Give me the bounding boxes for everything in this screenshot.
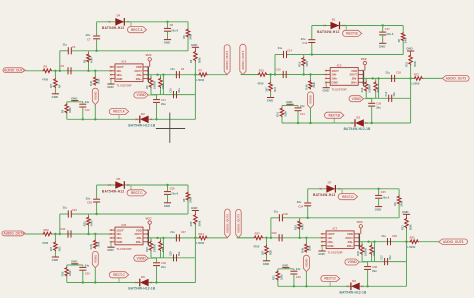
svg-text:31u: 31u [278,46,283,50]
svg-text:GND: GND [406,47,412,51]
svg-text:RECT.B: RECT.B [346,32,358,36]
svg-text:500k: 500k [414,61,417,67]
svg-text:GND: GND [191,206,197,210]
svg-text:240k: 240k [189,197,192,203]
svg-text:100k: 100k [280,274,283,280]
svg-text:GND: GND [331,81,337,85]
svg-text:500k: 500k [410,224,413,230]
svg-text:GND: GND [327,244,333,248]
svg-text:C38: C38 [372,265,377,269]
svg-text:BAT54W-H12-1B: BAT54W-H12-1B [344,127,371,131]
svg-text:D3: D3 [356,116,360,120]
svg-text:C30: C30 [85,271,90,275]
svg-text:100k: 100k [98,78,101,84]
svg-text:RECT.D: RECT.D [342,195,354,199]
svg-text:31u: 31u [63,42,68,46]
svg-text:GND: GND [263,262,269,266]
svg-text:30u: 30u [389,255,392,260]
svg-text:L5000: L5000 [407,245,415,249]
svg-text:21u: 21u [170,230,175,234]
svg-text:21u: 21u [381,234,386,238]
svg-text:VGND: VGND [352,97,362,101]
svg-text:30u: 30u [178,88,181,93]
svg-text:R19: R19 [277,112,280,117]
svg-text:GND: GND [379,44,385,48]
svg-text:IC7: IC7 [333,227,338,231]
svg-text:IC4: IC4 [122,60,127,64]
svg-text:AUDIO_OUT5: AUDIO_OUT5 [226,214,230,234]
svg-text:C36: C36 [392,234,397,238]
svg-text:C7: C7 [87,37,91,41]
svg-text:AUDIO_OUT6: AUDIO_OUT6 [443,240,464,244]
svg-text:C23: C23 [72,208,77,212]
svg-text:VGND: VGND [93,91,97,101]
svg-text:TLV2372IP: TLV2372IP [328,251,343,255]
svg-text:20u-6: 20u-6 [382,195,389,199]
svg-text:31u: 31u [63,206,68,210]
svg-text:R16: R16 [361,87,364,92]
svg-text:C8: C8 [170,23,174,27]
svg-text:R28: R28 [269,250,273,255]
svg-text:C37: C37 [381,255,384,260]
svg-text:267: 267 [260,250,264,255]
svg-text:R13: R13 [259,68,265,72]
svg-text:C6: C6 [61,64,65,68]
svg-text:AUDIO_OUT5: AUDIO_OUT5 [237,214,241,234]
svg-text:C19: C19 [385,91,388,96]
svg-text:C15: C15 [276,68,281,72]
svg-text:C14: C14 [287,49,292,53]
svg-text:4000: 4000 [373,250,376,256]
svg-text:2IN+: 2IN+ [347,244,353,248]
svg-text:BAT54W-H12-1B: BAT54W-H12-1B [128,287,155,291]
svg-text:100k: 100k [313,82,316,88]
svg-text:C26: C26 [170,186,175,190]
svg-text:4700: 4700 [257,81,264,85]
svg-text:C9: C9 [181,67,185,71]
svg-text:GND: GND [164,204,170,208]
svg-text:C10: C10 [170,88,173,93]
svg-text:100000: 100000 [153,80,156,89]
svg-text:20u-6: 20u-6 [387,32,394,36]
svg-text:R15: R15 [298,61,302,66]
svg-text:VGND: VGND [136,93,146,97]
svg-text:R21: R21 [58,246,62,251]
svg-text:IC6: IC6 [122,223,127,227]
svg-text:GND: GND [52,95,58,99]
svg-text:VCC: VCC [357,220,364,224]
svg-text:GND: GND [107,248,113,252]
svg-text:L5000: L5000 [196,241,204,245]
svg-text:C33: C33 [272,231,277,235]
svg-text:VGND: VGND [309,94,313,104]
svg-text:D6: D6 [141,275,145,279]
svg-text:21u: 21u [386,71,391,75]
svg-text:240k: 240k [401,200,404,206]
svg-text:BAT54W-H12-1B: BAT54W-H12-1B [128,123,155,127]
svg-text:R17: R17 [414,72,420,76]
svg-text:2IN+: 2IN+ [136,77,142,81]
svg-text:100000: 100000 [369,84,372,93]
svg-text:TLV2372IP: TLV2372IP [332,87,347,91]
svg-text:267: 267 [49,83,53,88]
svg-text:GND: GND [107,85,113,89]
svg-text:VCC: VCC [146,53,153,57]
svg-text:30u: 30u [393,92,396,97]
svg-text:4700: 4700 [253,245,260,249]
svg-text:C25: C25 [87,201,92,205]
svg-text:GND: GND [286,100,292,104]
svg-text:22u: 22u [86,33,91,37]
svg-text:100k: 100k [98,241,101,247]
svg-text:4000: 4000 [162,83,165,89]
svg-text:GND: GND [164,41,170,45]
svg-text:TLV2372IP: TLV2372IP [117,84,132,88]
svg-text:4700: 4700 [42,78,49,82]
svg-text:31u: 31u [274,209,279,213]
svg-text:BAT54W-H12: BAT54W-H12 [317,30,340,34]
svg-text:GND: GND [116,240,122,244]
svg-text:240k: 240k [405,37,408,43]
svg-text:R31: R31 [410,236,416,240]
svg-text:GND: GND [52,258,58,262]
svg-text:GND: GND [282,263,288,267]
svg-text:R22: R22 [82,221,86,226]
svg-text:4000: 4000 [162,246,165,252]
svg-text:29u: 29u [161,102,166,106]
svg-text:GND: GND [375,208,381,212]
svg-text:2IN+: 2IN+ [136,240,142,244]
svg-text:GND: GND [318,252,324,256]
svg-text:D5: D5 [117,177,121,181]
svg-text:RECT.A: RECT.A [113,110,125,114]
svg-text:C27: C27 [181,230,186,234]
svg-text:100k: 100k [309,245,312,251]
svg-text:D2: D2 [141,112,145,116]
svg-text:500k: 500k [199,57,202,63]
svg-text:R18: R18 [405,62,408,67]
svg-text:C16: C16 [302,41,307,45]
svg-text:C18: C18 [396,71,401,75]
svg-text:24u: 24u [300,104,305,108]
svg-text:240k: 240k [189,33,192,39]
svg-text:C20: C20 [376,102,381,106]
svg-text:24u: 24u [296,267,301,271]
svg-text:BAT54W-H12: BAT54W-H12 [102,189,125,193]
svg-text:R27: R27 [255,232,261,236]
svg-text:R5: R5 [82,59,86,63]
svg-text:C17: C17 [385,27,390,31]
svg-text:R33: R33 [273,275,276,280]
svg-text:VGND: VGND [305,258,309,268]
svg-text:GND: GND [402,210,408,214]
svg-text:C32: C32 [283,212,288,216]
svg-text:R20: R20 [44,228,50,232]
svg-text:R-IN: R-IN [305,84,308,89]
svg-text:22u: 22u [86,196,91,200]
svg-text:L5000: L5000 [196,78,204,82]
svg-text:L5000: L5000 [412,82,420,86]
svg-text:22u: 22u [301,37,306,41]
svg-text:100k: 100k [69,107,72,113]
svg-text:GND: GND [267,99,273,103]
svg-text:GND: GND [116,77,122,81]
svg-text:R29: R29 [294,225,298,230]
svg-text:21u: 21u [170,67,175,71]
svg-text:GND: GND [71,96,77,100]
svg-text:4000: 4000 [90,57,94,63]
svg-text:D8: D8 [352,279,356,283]
svg-text:29u: 29u [161,265,166,269]
svg-text:2IN+: 2IN+ [351,81,357,85]
svg-text:IC5: IC5 [337,63,342,67]
svg-text:4000: 4000 [377,87,380,93]
svg-text:BAT54W-H12: BAT54W-H12 [313,193,336,197]
svg-text:C5: C5 [72,45,76,49]
svg-text:C28: C28 [170,251,173,256]
svg-text:R3: R3 [44,65,48,69]
svg-text:C12: C12 [85,108,90,112]
svg-text:R7: R7 [199,69,203,73]
svg-text:AUDIO_OUT4: AUDIO_OUT4 [3,232,24,236]
svg-text:R23: R23 [146,247,149,252]
svg-text:R-IN: R-IN [90,244,93,249]
svg-text:AUDIO_OUT3: AUDIO_OUT3 [446,77,467,81]
svg-text:C34: C34 [298,204,303,208]
svg-text:GND: GND [322,89,328,93]
svg-text:C21: C21 [300,112,305,116]
svg-text:267: 267 [49,246,53,251]
svg-text:VGND: VGND [347,260,357,264]
svg-text:R14: R14 [273,86,277,91]
svg-text:TLV2372IP: TLV2372IP [117,247,132,251]
svg-text:RECT.C: RECT.C [113,273,125,277]
svg-text:C29: C29 [161,261,166,265]
svg-text:R30: R30 [357,250,360,255]
svg-text:4000: 4000 [90,220,94,226]
svg-text:AUDIO_OUT2: AUDIO_OUT2 [241,50,245,70]
svg-text:R25: R25 [190,221,193,226]
svg-text:20u-6: 20u-6 [171,28,178,32]
svg-text:100k: 100k [69,270,72,276]
svg-text:R32: R32 [401,225,404,230]
svg-text:C35: C35 [381,190,386,194]
svg-text:VCC: VCC [146,216,153,220]
svg-text:24u: 24u [85,100,90,104]
svg-text:R4: R4 [58,84,62,88]
svg-text:267: 267 [264,87,268,92]
svg-text:BAT54W-H12: BAT54W-H12 [102,26,125,30]
svg-text:29u: 29u [372,269,377,273]
svg-text:VGND: VGND [136,256,146,260]
svg-text:D7: D7 [328,181,332,185]
svg-text:4700: 4700 [42,241,49,245]
svg-text:AUDIO_OUT2: AUDIO_OUT2 [225,50,229,70]
svg-text:VGND: VGND [93,254,97,264]
svg-text:R24: R24 [199,232,205,236]
svg-text:100000: 100000 [153,244,156,253]
svg-text:C11: C11 [161,98,166,102]
svg-text:100k: 100k [284,111,287,117]
svg-text:VCC: VCC [361,57,368,61]
svg-text:R-IN: R-IN [301,248,304,253]
svg-text:4000: 4000 [305,60,309,66]
svg-text:BAT54W-H12-1B: BAT54W-H12-1B [340,290,367,294]
svg-text:RECT.A: RECT.A [131,28,143,32]
svg-text:RECT.C: RECT.C [131,191,143,195]
svg-text:AUDIO_OUT1: AUDIO_OUT1 [4,68,25,72]
svg-text:GND: GND [191,43,197,47]
svg-text:100000: 100000 [364,247,367,256]
svg-text:RECT.D: RECT.D [324,277,336,281]
svg-text:30u: 30u [178,251,181,256]
svg-text:D1: D1 [332,17,336,21]
svg-text:D4: D4 [117,14,121,18]
svg-text:R-IN: R-IN [90,81,93,86]
svg-text:500k: 500k [199,220,202,226]
svg-text:4000: 4000 [301,224,305,230]
svg-text:GND: GND [71,260,77,264]
svg-text:24u: 24u [85,263,90,267]
svg-text:22u: 22u [297,200,302,204]
svg-text:29u: 29u [376,106,381,110]
svg-text:R26: R26 [61,271,64,276]
svg-text:RECT.B: RECT.B [328,113,340,117]
svg-text:C39: C39 [296,275,301,279]
svg-text:20u-6: 20u-6 [171,192,178,196]
svg-text:C24: C24 [61,227,66,231]
